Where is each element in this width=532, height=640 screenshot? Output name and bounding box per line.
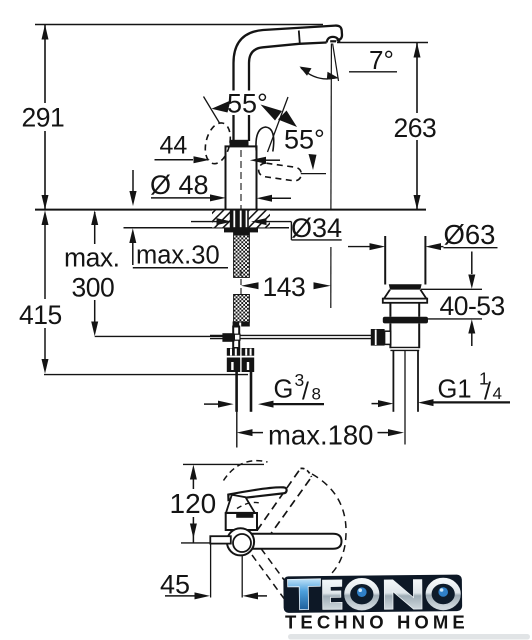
svg-text:55°: 55° bbox=[227, 89, 268, 119]
svg-text:415: 415 bbox=[19, 300, 62, 330]
svg-text:8: 8 bbox=[312, 385, 321, 404]
svg-text:/: / bbox=[302, 378, 309, 406]
svg-text:7°: 7° bbox=[369, 45, 394, 75]
svg-text:263: 263 bbox=[394, 113, 437, 143]
svg-text:143: 143 bbox=[263, 272, 306, 302]
svg-text:55°: 55° bbox=[284, 125, 325, 155]
svg-text:max.180: max.180 bbox=[268, 420, 373, 451]
svg-text:max.30: max.30 bbox=[136, 242, 220, 270]
svg-text:G: G bbox=[274, 375, 294, 403]
svg-text:4: 4 bbox=[493, 384, 502, 403]
svg-text:40-53: 40-53 bbox=[440, 291, 505, 321]
svg-text:G1: G1 bbox=[438, 375, 472, 403]
svg-text:45: 45 bbox=[160, 570, 190, 600]
svg-text:TECHNO HOME: TECHNO HOME bbox=[285, 612, 469, 633]
svg-text:Ø34: Ø34 bbox=[291, 213, 342, 243]
svg-text:44: 44 bbox=[160, 132, 188, 160]
svg-text:120: 120 bbox=[170, 488, 217, 519]
svg-text:max.: max. bbox=[64, 243, 119, 273]
svg-text:300: 300 bbox=[72, 273, 115, 303]
svg-text:291: 291 bbox=[22, 103, 65, 133]
svg-text:/: / bbox=[484, 378, 491, 406]
svg-text:Ø 48: Ø 48 bbox=[150, 170, 209, 200]
svg-text:Ø63: Ø63 bbox=[444, 219, 496, 250]
